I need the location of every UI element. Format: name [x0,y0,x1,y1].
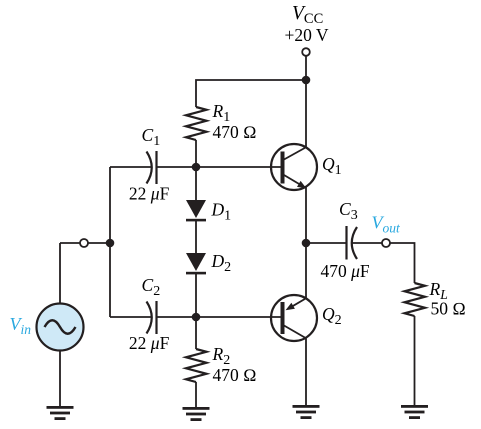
ground RL [401,405,428,419]
transistor Q1 [271,144,317,190]
svg-text:C2: C2 [142,275,161,299]
node A [192,163,201,172]
svg-text:D1: D1 [211,200,232,224]
svg-text:470 Ω: 470 Ω [213,122,257,142]
node input [106,239,115,248]
svg-text:Q1: Q1 [322,154,342,178]
wire R1 bottom to node A [195,140,197,167]
capacitor C1 [147,151,157,184]
capacitor C3 [347,226,358,260]
wire D1 to D2 [195,221,197,253]
svg-text:C3: C3 [339,199,358,223]
wire Q2 collector to ground [305,339,307,406]
terminal input [80,239,88,247]
wire C2 to node B to Q2 base [157,316,281,318]
svg-text:470 Ω: 470 Ω [213,365,257,385]
svg-text:+20 V: +20 V [285,25,329,45]
svg-text:Q2: Q2 [322,304,342,328]
resistor R1 [186,107,207,140]
wire input to node [60,242,110,244]
node B [192,313,201,322]
wire node B to R2 [195,317,197,349]
node output [302,239,311,248]
wire left vertical C1-C2 [109,167,111,317]
diode D2 [186,253,206,274]
ground R2 [183,407,210,421]
wire Q1 collector [305,80,307,147]
wire D2 to node B [195,274,197,317]
svg-text:VCC: VCC [292,3,323,27]
wire R2 to ground [195,382,197,407]
svg-text:50 Ω: 50 Ω [431,299,466,319]
wire RL to ground [414,316,416,405]
wire top rail [196,80,306,107]
svg-text:Vout: Vout [372,213,402,236]
wire Vcc to rail [305,56,307,80]
svg-text:470 μF: 470 μF [321,261,370,281]
wire C1 to node A to Q1 base [157,166,281,168]
svg-text:22 μF: 22 μF [129,184,170,204]
wire Vin to ground [59,351,61,407]
wire Q2 emitter to output node [305,243,307,298]
resistor RL [405,283,426,316]
wire C2 left lead [110,316,152,318]
svg-text:22 μF: 22 μF [129,333,170,353]
wire C3 to Vout terminal [353,242,383,244]
svg-text:C1: C1 [142,125,161,149]
node rail junction [302,76,311,85]
ground Vin [47,406,74,420]
terminal Vcc [302,48,310,56]
wire C1 left lead [110,166,152,168]
wire Q1 emitter to output node [305,187,307,243]
transistor Q2 [271,295,317,341]
ground Q2 [293,405,320,419]
wire output node to C3 [306,242,346,244]
wire node A to D1 [195,167,197,200]
capacitor C2 [147,301,157,334]
svg-text:D2: D2 [211,251,232,275]
wire Vout to RL [390,243,415,283]
source Vin [37,304,84,351]
svg-text:Vin: Vin [10,314,32,337]
resistor R2 [186,349,207,382]
wire input corner down to Vin [59,243,61,304]
diode D1 [186,200,206,221]
terminal Vout [382,239,390,247]
